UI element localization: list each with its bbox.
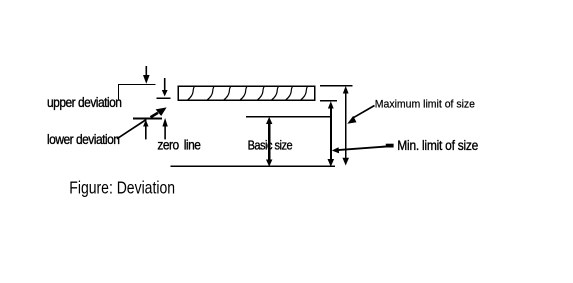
svg-text:upper deviation: upper deviation <box>47 94 122 110</box>
bottom reference line <box>170 165 335 167</box>
hatching stroke 4 <box>240 86 247 100</box>
reference line: top of basic size <box>246 116 331 118</box>
hatching stroke 6 <box>272 86 279 100</box>
leader bracket for upper deviation label <box>119 85 156 100</box>
arrow: large down arrow onto upper reference line <box>143 66 150 84</box>
dimension arrow: maximum limit of size (double headed) <box>342 86 349 166</box>
arrow: up arrow 2 below zero line <box>162 118 167 139</box>
hatching stroke 7 <box>286 86 293 100</box>
hatching stroke 2 <box>207 86 214 100</box>
reference line: top of max limit (right of rectangle) <box>320 85 353 87</box>
dimension arrow: basic size (double headed, thick) <box>266 117 272 167</box>
hatching stroke 3 <box>224 86 231 100</box>
svg-text:Maximum limit of size: Maximum limit of size <box>375 98 475 110</box>
tick line under small down arrow <box>157 97 171 99</box>
svg-text:Basic size: Basic size <box>248 138 293 153</box>
svg-text:lower deviation: lower deviation <box>47 131 120 147</box>
leader: lower deviation arrowhead segment <box>151 107 167 117</box>
svg-text:Figure: Deviation: Figure: Deviation <box>69 179 175 198</box>
hatching stroke 5 <box>258 86 265 100</box>
zero line left segment <box>133 118 162 120</box>
hatching stroke 1 <box>188 86 195 100</box>
tolerance zone rectangle <box>178 86 315 100</box>
arrow: small down arrow at zero line <box>162 78 168 97</box>
arrow: up arrow 1 below zero line <box>143 120 148 140</box>
svg-text:zero line: zero line <box>157 137 200 153</box>
reference line: bottom of rectangle level (right of rectangle) <box>320 100 337 102</box>
dimension arrow: min limit of size (double headed) <box>328 101 335 167</box>
leader: lower deviation diagonal line <box>117 120 146 139</box>
hatching stroke 8 <box>301 86 308 100</box>
leader: min limit of size (dash, line, arrowhead) <box>332 144 394 154</box>
leader: maximum limit of size <box>347 106 374 124</box>
svg-text:Min. limit of size: Min. limit of size <box>397 137 478 153</box>
